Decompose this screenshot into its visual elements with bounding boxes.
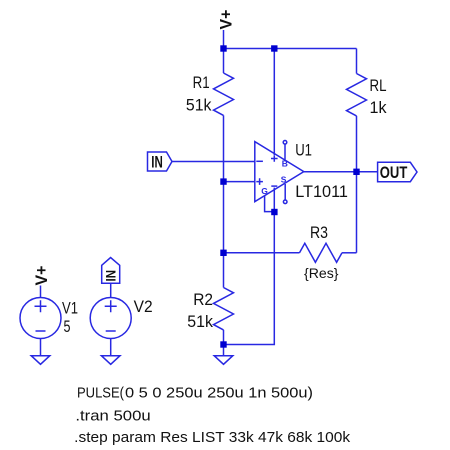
svg-text:IN: IN — [103, 270, 119, 282]
svg-text:S: S — [281, 175, 287, 185]
svg-text:U1: U1 — [295, 142, 312, 160]
svg-text:.tran 500u: .tran 500u — [75, 408, 150, 425]
svg-text:B: B — [282, 158, 288, 168]
svg-text:1k: 1k — [370, 99, 388, 117]
svg-text:51k: 51k — [186, 97, 212, 115]
svg-text:V2: V2 — [134, 298, 153, 316]
svg-text:R2: R2 — [193, 291, 213, 309]
svg-text:R3: R3 — [310, 224, 328, 242]
svg-text:V1: V1 — [62, 300, 78, 318]
svg-text:V+: V+ — [33, 266, 51, 286]
svg-text:{Res}: {Res} — [304, 265, 339, 281]
svg-text:RL: RL — [370, 77, 387, 95]
svg-text:R1: R1 — [193, 74, 210, 92]
svg-text:OUT: OUT — [380, 164, 408, 182]
svg-text:.step param Res LIST 33k 47k 6: .step param Res LIST 33k 47k 68k 100k — [74, 429, 350, 446]
svg-text:LT1011: LT1011 — [295, 183, 348, 201]
svg-text:5: 5 — [64, 318, 71, 336]
svg-text:V+: V+ — [217, 10, 235, 30]
svg-text:G: G — [261, 186, 268, 196]
svg-text:51k: 51k — [187, 313, 213, 331]
svg-text:0 5 0 250u 250u 1n 500u): 0 5 0 250u 250u 1n 500u) — [125, 384, 313, 401]
svg-text:IN: IN — [151, 154, 163, 172]
svg-text:PULSE(: PULSE( — [77, 384, 124, 401]
